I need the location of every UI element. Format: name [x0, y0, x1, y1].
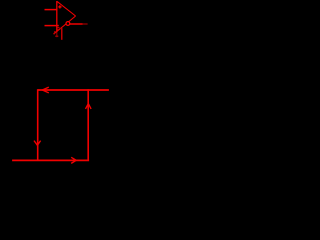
hysteresis icon marks — [54, 28, 60, 32]
op-amp left edge — [56, 1, 58, 32]
op-amp top edge — [57, 1, 76, 16]
base blob — [55, 36, 58, 38]
pin hook — [60, 28, 62, 30]
dot — [53, 33, 55, 34]
pin: down stub — [61, 28, 63, 40]
wire: output line fade — [83, 23, 88, 25]
hysteresis loop: left vertical (down transition) — [37, 89, 39, 160]
op-amp U1 — [54, 1, 76, 37]
hysteresis loop: top line (high output) — [38, 89, 109, 91]
arrow down (on left vertical) — [34, 141, 41, 146]
hysteresis loop: right vertical (up transition) — [87, 89, 89, 160]
op-amp bottom edge (extended past corner) — [54, 16, 76, 34]
wire: top input lead — [45, 9, 58, 11]
plus sign (non-inverting input) — [58, 5, 61, 8]
arrow right (on bottom line) — [71, 157, 76, 163]
hysteresis loop: bottom line (low output) — [12, 159, 89, 161]
node ball (circle on slope) — [66, 22, 70, 26]
wire: bottom input lead — [45, 25, 59, 27]
wire: output line — [70, 23, 83, 25]
op-amp left edge dim extension — [56, 32, 58, 38]
arrow up (on right vertical) — [86, 104, 92, 109]
arrow left (on top line) — [42, 87, 49, 93]
